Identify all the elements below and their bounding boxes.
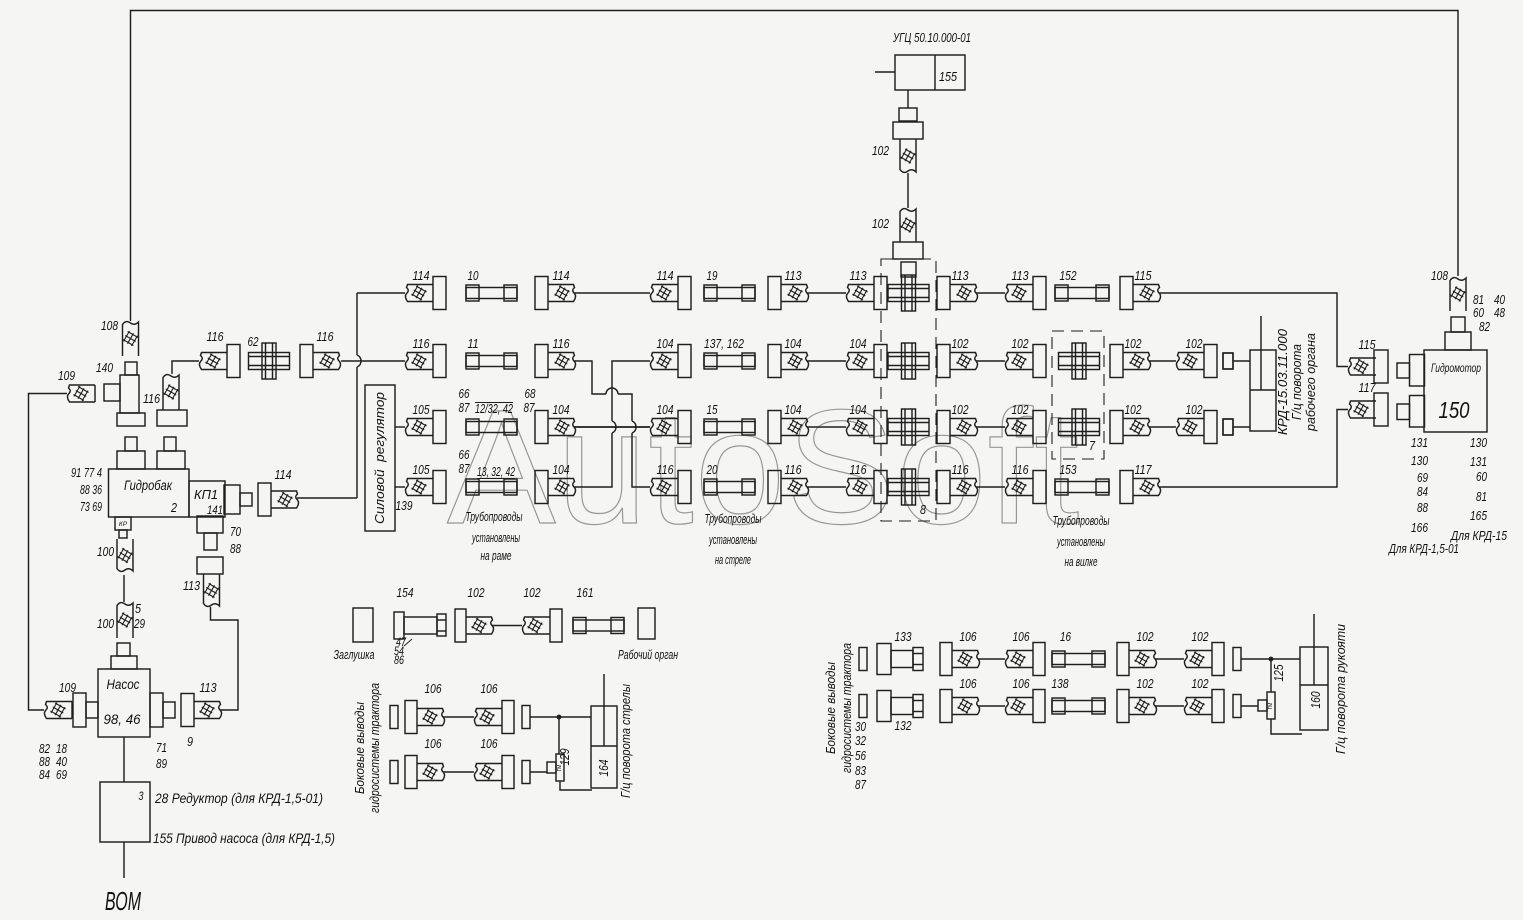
svg-text:на вилке: на вилке [1065, 554, 1098, 569]
hose fitting 113 row1 [1005, 277, 1046, 310]
svg-text:113: 113 [200, 681, 217, 695]
cylinder КРД-15.03.11.000 [1250, 316, 1276, 431]
hose fitting 102 row3 [1005, 411, 1046, 444]
svg-text:установлены: установлены [471, 530, 520, 545]
svg-text:40: 40 [1494, 293, 1505, 307]
cross fitting [888, 409, 929, 445]
svg-text:154: 154 [397, 586, 414, 600]
svg-text:86: 86 [394, 655, 404, 667]
pipe 133 [877, 644, 923, 675]
hose fitting 116 [300, 345, 341, 378]
svg-text:102: 102 [1186, 337, 1203, 351]
hose fitting 102 upper [893, 122, 923, 172]
svg-text:109: 109 [58, 369, 75, 383]
svg-text:104: 104 [850, 403, 867, 417]
svg-text:3: 3 [139, 791, 144, 803]
hose fitting 113 vertical [197, 557, 223, 606]
pipe 10 row1 [466, 285, 517, 301]
svg-text:18: 18 [56, 742, 67, 756]
svg-text:81: 81 [1476, 490, 1487, 504]
pipe 19 row1 [704, 285, 755, 301]
svg-text:106: 106 [481, 737, 498, 751]
svg-text:150: 150 [1439, 397, 1470, 423]
svg-text:102: 102 [1186, 403, 1203, 417]
svg-text:Рабочий орган: Рабочий орган [618, 648, 678, 662]
wire [978, 705, 1005, 707]
svg-text:115: 115 [1359, 338, 1376, 352]
КП1 right flange [224, 485, 252, 514]
stub connector [1233, 648, 1241, 671]
cross fitting [888, 469, 929, 505]
wire [976, 486, 1005, 488]
hose fitting 102 row2 [1005, 345, 1046, 378]
hose fitting 114 row1 [405, 277, 446, 310]
svg-text:104: 104 [553, 463, 570, 477]
hose fitting 105 row3 [405, 411, 446, 444]
wire [907, 173, 909, 208]
svg-text:102: 102 [1137, 630, 1154, 644]
svg-text:138: 138 [1052, 677, 1069, 691]
wire pump to reducer [123, 737, 125, 782]
svg-text:152: 152 [1060, 269, 1077, 283]
svg-text:166: 166 [1411, 521, 1428, 535]
svg-text:100: 100 [97, 545, 114, 559]
wire [123, 575, 125, 602]
wire [807, 292, 846, 294]
svg-text:рабочего органа: рабочего органа [1304, 333, 1318, 432]
svg-text:87: 87 [459, 401, 471, 415]
svg-text:87: 87 [524, 401, 536, 415]
svg-text:ГМ: ГМ [1268, 703, 1274, 710]
hose fitting 104 row2 [768, 345, 809, 378]
stub connector [859, 695, 867, 718]
svg-text:116: 116 [317, 330, 334, 344]
hose fitting 113 row1 [846, 277, 887, 310]
wire junction to valve [1270, 659, 1272, 692]
tank Гидробак [109, 469, 190, 517]
hose fitting 104 row3 [535, 411, 576, 444]
svg-text:155: 155 [939, 69, 958, 84]
svg-text:113: 113 [785, 269, 802, 283]
svg-text:88: 88 [1417, 501, 1428, 515]
svg-text:116: 116 [850, 463, 867, 477]
pipe 15 row3 [704, 419, 755, 435]
svg-text:88: 88 [230, 542, 241, 556]
stub connector [1233, 695, 1241, 718]
svg-text:AutoSoft: AutoSoft [447, 375, 1080, 558]
svg-text:91 77 4: 91 77 4 [71, 466, 102, 480]
boom cylinder Г/ц поворота стрелы [591, 674, 617, 788]
svg-text:69: 69 [56, 768, 67, 782]
valve ГМ boom [547, 754, 564, 781]
svg-text:160: 160 [1309, 691, 1323, 708]
svg-text:116: 116 [143, 392, 160, 406]
svg-text:32: 32 [855, 734, 866, 748]
hose fitting 115 row1 [1120, 277, 1161, 310]
pipe 11 row2 [466, 353, 517, 369]
wire to cylinder [1233, 360, 1250, 362]
hose fitting 102 [1117, 690, 1157, 723]
svg-text:5: 5 [135, 602, 141, 616]
svg-text:153: 153 [1060, 463, 1077, 477]
hose fitting 106 [405, 756, 445, 789]
adapter block [899, 108, 917, 121]
svg-text:28 Редуктор (для КРД-1,5-01): 28 Редуктор (для КРД-1,5-01) [154, 790, 323, 806]
pipe 153 row4 [1055, 479, 1109, 495]
svg-text:7: 7 [1089, 438, 1096, 453]
pipe 12/32, 42 row3 [466, 419, 517, 435]
svg-text:102: 102 [1012, 337, 1029, 351]
svg-text:Трубопроводы: Трубопроводы [466, 509, 523, 524]
wire 113 to pump [211, 607, 239, 710]
cross fitting [1059, 343, 1100, 379]
svg-text:137, 162: 137, 162 [704, 337, 744, 351]
hose fitting 106 [1005, 643, 1045, 676]
svg-text:8: 8 [920, 502, 927, 517]
svg-text:140: 140 [96, 361, 113, 375]
svg-text:30: 30 [855, 720, 866, 734]
svg-text:108: 108 [101, 319, 118, 333]
hose fitting 102 [455, 609, 494, 642]
hose fitting 113 at pump [181, 694, 222, 727]
wire row1 feed [357, 292, 405, 294]
wire [976, 292, 1005, 294]
stub connector [390, 761, 398, 784]
svg-text:62: 62 [248, 335, 259, 349]
svg-text:164: 164 [597, 759, 611, 776]
hose fitting 106 [474, 701, 514, 734]
svg-text:Для КРД-1,5-01: Для КРД-1,5-01 [1387, 542, 1459, 556]
svg-text:Боковые выводы: Боковые выводы [353, 702, 367, 794]
svg-text:139: 139 [396, 499, 413, 513]
cross fitting [1059, 409, 1100, 445]
svg-text:Боковые выводы: Боковые выводы [824, 662, 838, 754]
svg-text:13, 32, 42: 13, 32, 42 [477, 465, 515, 479]
svg-text:98, 46: 98, 46 [104, 712, 141, 727]
wire [1149, 426, 1176, 428]
wire to boom cylinder [530, 716, 591, 718]
wire [807, 426, 846, 428]
svg-text:133: 133 [895, 630, 912, 644]
hose fitting 104 row4 [535, 471, 576, 504]
hose fitting 102 [1117, 643, 1157, 676]
svg-text:102: 102 [952, 337, 969, 351]
svg-text:Трубопроводы: Трубопроводы [705, 511, 762, 526]
svg-text:104: 104 [785, 337, 802, 351]
svg-text:104: 104 [657, 337, 674, 351]
hose fitting 109 upper [67, 385, 95, 402]
hose fitting 102 [1184, 643, 1224, 676]
svg-text:установлены: установлены [708, 532, 757, 547]
wire valve to cylinder [530, 772, 592, 790]
wire valve to cylinder [1241, 706, 1302, 734]
svg-text:КРД-15.03.11.000: КРД-15.03.11.000 [1276, 329, 1290, 435]
cylinder УГЦ 155 [875, 55, 965, 90]
stub connector [1223, 353, 1233, 369]
pump port left [73, 693, 98, 727]
svg-text:102: 102 [524, 586, 541, 600]
tank port right [157, 437, 185, 469]
svg-text:161: 161 [577, 586, 594, 600]
hose fitting 108 right [1450, 278, 1466, 311]
svg-text:116: 116 [657, 463, 674, 477]
hose fitting 116 row4 [937, 471, 978, 504]
hose fitting 114 row1 [535, 277, 576, 310]
hose fitting 104 row3 [846, 411, 887, 444]
svg-text:113: 113 [183, 579, 200, 593]
pipe 138 [1052, 698, 1105, 714]
wire row2-row4 crossover A [574, 361, 650, 487]
pipe stub [901, 262, 916, 277]
hose fitting 108 left [123, 322, 139, 356]
svg-text:105: 105 [413, 463, 430, 477]
hose fitting 104 row3 [768, 411, 809, 444]
svg-text:20: 20 [706, 463, 718, 477]
svg-text:11: 11 [468, 337, 479, 351]
hydromotor port upper [1397, 355, 1425, 387]
hose fitting 114 row1 [650, 277, 691, 310]
svg-text:113: 113 [952, 269, 969, 283]
svg-text:40: 40 [56, 755, 67, 769]
hose fitting 116 vertical [157, 375, 187, 426]
svg-text:102: 102 [872, 144, 889, 158]
svg-text:83: 83 [855, 764, 866, 778]
stub connector [522, 706, 530, 729]
svg-text:102: 102 [1125, 337, 1142, 351]
svg-text:УГЦ 50.10.000-01: УГЦ 50.10.000-01 [892, 30, 971, 45]
hose fitting 113 row1 [937, 277, 978, 310]
svg-text:на стреле: на стреле [715, 552, 751, 567]
hose fitting 116 row2 [535, 345, 576, 378]
pipe 16 [1052, 651, 1105, 667]
svg-text:ВОМ: ВОМ [105, 886, 141, 916]
svg-text:102: 102 [1137, 677, 1154, 691]
svg-text:87: 87 [459, 462, 471, 476]
svg-text:116: 116 [1012, 463, 1029, 477]
svg-text:гидросистемы трактора: гидросистемы трактора [368, 683, 382, 813]
hose fitting 116 row4 [1005, 471, 1046, 504]
svg-text:71: 71 [156, 741, 167, 755]
svg-text:113: 113 [850, 269, 867, 283]
svg-text:102: 102 [872, 217, 889, 231]
wire junction to valve [558, 717, 560, 754]
hose fitting 105 row4 [405, 471, 446, 504]
cross fitting [888, 343, 929, 379]
svg-text:102: 102 [952, 403, 969, 417]
work tool Рабочий орган [638, 608, 655, 639]
svg-text:82: 82 [1479, 320, 1490, 334]
svg-text:106: 106 [960, 677, 977, 691]
svg-text:66: 66 [459, 448, 470, 462]
svg-text:48: 48 [1494, 306, 1505, 320]
pipe 13, 32, 42 row4 [466, 479, 517, 495]
svg-text:104: 104 [785, 403, 802, 417]
wire [443, 771, 474, 773]
svg-text:102: 102 [1125, 403, 1142, 417]
svg-text:Гидробак: Гидробак [124, 478, 173, 493]
wire row3 through [574, 426, 650, 428]
svg-text:10: 10 [468, 269, 479, 283]
hose fitting 102 row2 [937, 345, 978, 378]
svg-text:100: 100 [97, 617, 114, 631]
svg-text:ГМ: ГМ [557, 765, 563, 772]
wire [807, 360, 846, 362]
pump port right [150, 693, 175, 727]
svg-text:15: 15 [707, 403, 718, 417]
svg-text:116: 116 [553, 337, 570, 351]
svg-text:84: 84 [39, 768, 50, 782]
svg-text:114: 114 [413, 269, 430, 283]
svg-text:установлены: установлены [1056, 534, 1105, 549]
КР valve [115, 517, 131, 538]
hose fitting 102 row3 [1110, 411, 1151, 444]
tee fitting 140 [104, 362, 145, 426]
stub connector row2 [1223, 353, 1233, 369]
svg-text:106: 106 [960, 630, 977, 644]
wire [978, 658, 1005, 660]
svg-text:115: 115 [1135, 269, 1152, 283]
svg-text:113: 113 [1012, 269, 1029, 283]
hose fitting 106 [474, 756, 514, 789]
junction [1269, 657, 1274, 662]
svg-text:Г/ц поворота рукояти: Г/ц поворота рукояти [1334, 624, 1348, 754]
svg-text:114: 114 [657, 269, 674, 283]
wire [1155, 705, 1184, 707]
svg-text:131: 131 [1411, 436, 1428, 450]
hose fitting 102 row3 [937, 411, 978, 444]
hose fitting 106 [940, 690, 980, 723]
svg-text:116: 116 [413, 337, 430, 351]
svg-text:102: 102 [1192, 677, 1209, 691]
svg-text:106: 106 [425, 737, 442, 751]
valve КП1 [189, 481, 225, 517]
wire reducer to ВОМ [123, 842, 125, 878]
svg-text:56: 56 [855, 749, 866, 763]
svg-text:141: 141 [207, 503, 223, 517]
svg-text:Трубопроводы: Трубопроводы [1053, 513, 1110, 528]
svg-text:109: 109 [59, 681, 76, 695]
hose fitting 113 row1 [768, 277, 809, 310]
hose fitting 100 upper [117, 539, 133, 571]
svg-text:102: 102 [1012, 403, 1029, 417]
wire КП1 to riser [297, 497, 357, 499]
hydromotor Гидромотор 150 [1424, 350, 1487, 432]
hose fitting 116 row2 [405, 345, 446, 378]
svg-text:9: 9 [187, 735, 193, 749]
junction [557, 715, 562, 720]
svg-text:60: 60 [1476, 470, 1487, 484]
wire row2 feed from tank chain [341, 360, 405, 362]
svg-text:116: 116 [952, 463, 969, 477]
svg-text:КП1: КП1 [194, 487, 218, 502]
svg-text:60: 60 [1473, 306, 1484, 320]
svg-text:106: 106 [425, 682, 442, 696]
wire top border loop [131, 11, 1459, 322]
wire to arm cylinder [1241, 658, 1300, 660]
КП1 bottom port [197, 516, 223, 550]
hose fitting 102 row2 [1110, 345, 1151, 378]
hose fitting 109 lower [44, 702, 72, 719]
valve ГМ arm [1258, 692, 1275, 719]
svg-text:Г/ц поворота стрелы: Г/ц поворота стрелы [619, 684, 633, 798]
wire cylinder to adapter [907, 90, 909, 108]
svg-text:29: 29 [133, 617, 145, 631]
wire [1155, 658, 1184, 660]
hose fitting 106 [1005, 690, 1045, 723]
hose fitting 116 row4 [768, 471, 809, 504]
svg-text:104: 104 [657, 403, 674, 417]
stub connector [390, 706, 398, 729]
svg-text:130: 130 [1470, 436, 1487, 450]
svg-text:105: 105 [413, 403, 430, 417]
svg-text:102: 102 [1192, 630, 1209, 644]
wire [574, 292, 650, 294]
pump port top [111, 643, 137, 669]
wire left drop [29, 394, 68, 711]
hydromotor top port [1445, 317, 1471, 350]
svg-text:88 36: 88 36 [80, 483, 102, 497]
wire row1 to hydromotor [1159, 293, 1348, 367]
wire [1149, 360, 1176, 362]
svg-text:Силовой регулятор: Силовой регулятор [373, 392, 387, 524]
pump Насос [98, 669, 150, 737]
wire [574, 426, 650, 428]
wire [172, 361, 199, 374]
wire [492, 625, 522, 627]
pipe 132 [877, 691, 923, 722]
svg-text:Гидромотор: Гидромотор [1431, 363, 1481, 375]
reducer box 3 [100, 782, 150, 842]
svg-text:70: 70 [230, 525, 241, 539]
hose fitting 102 row3 [1176, 411, 1217, 444]
stub connector [522, 761, 530, 784]
power regulator Силовой регулятор [365, 385, 395, 531]
svg-text:106: 106 [1013, 677, 1030, 691]
dashed group 8 [881, 259, 936, 521]
svg-text:108: 108 [1431, 269, 1448, 283]
plug Заглушка [353, 608, 373, 642]
tank port left [117, 437, 145, 469]
svg-text:116: 116 [785, 463, 802, 477]
svg-text:Насос: Насос [107, 677, 140, 692]
wire vertical from КП1 to row1 with hop [356, 293, 358, 498]
svg-text:104: 104 [553, 403, 570, 417]
hose fitting 115 to hydromotor [1348, 350, 1388, 383]
svg-text:102: 102 [468, 586, 485, 600]
hose fitting 102 row2 [1176, 345, 1217, 378]
svg-text:68: 68 [525, 387, 536, 401]
hose fitting 104 row2 [650, 345, 691, 378]
wire [976, 426, 1005, 428]
wire regulator to row3 [395, 426, 405, 428]
hose fitting 100 lower [117, 603, 133, 638]
svg-text:Г/ц поворота: Г/ц поворота [1290, 344, 1304, 420]
svg-text:117: 117 [1135, 463, 1153, 477]
hose fitting 117 to hydromotor [1348, 393, 1388, 426]
svg-text:130: 130 [1411, 454, 1428, 468]
hose fitting 106 [940, 643, 980, 676]
svg-text:165: 165 [1470, 509, 1487, 523]
cross fitting [888, 275, 929, 311]
wire row4 to hydromotor [1159, 410, 1348, 488]
svg-text:81: 81 [1473, 293, 1484, 307]
svg-text:73 69: 73 69 [80, 500, 102, 514]
svg-text:131: 131 [1470, 455, 1487, 469]
wire to cylinder [1233, 426, 1250, 428]
hydromotor port lower [1397, 396, 1425, 428]
svg-text:132: 132 [895, 719, 912, 733]
wire row2-row4 crossover B [574, 361, 650, 487]
